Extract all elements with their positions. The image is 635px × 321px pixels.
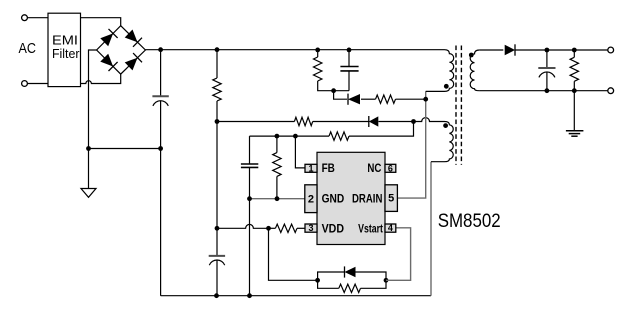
svg-text:SM8502: SM8502 — [438, 210, 501, 232]
svg-text:2: 2 — [308, 193, 314, 205]
svg-text:3: 3 — [308, 223, 313, 233]
svg-text:5: 5 — [388, 193, 394, 205]
svg-text:Filter: Filter — [52, 46, 80, 61]
svg-text:VDD: VDD — [322, 221, 345, 235]
svg-text:AC: AC — [19, 40, 37, 57]
svg-text:FB: FB — [322, 161, 335, 175]
svg-text:Vstart: Vstart — [358, 221, 383, 235]
svg-text:4: 4 — [388, 223, 393, 233]
svg-text:1: 1 — [308, 163, 313, 173]
svg-text:NC: NC — [367, 161, 381, 175]
svg-text:6: 6 — [388, 163, 393, 173]
svg-text:GND: GND — [322, 191, 345, 205]
svg-text:DRAIN: DRAIN — [352, 191, 382, 205]
